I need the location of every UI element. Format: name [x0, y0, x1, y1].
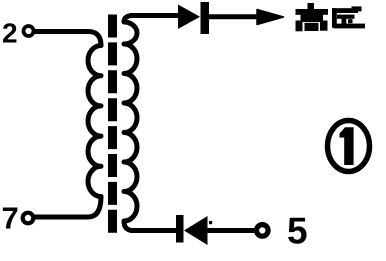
secondary winding of transformer T1: [124, 16, 137, 231]
terminal pin 5: [257, 225, 269, 237]
wire D1 cathode to output arrow: [208, 14, 259, 19]
wire pin2 to primary top: [33, 32, 101, 46]
svg-text:2: 2: [2, 18, 18, 49]
wire D2 anode to pin 5: [207, 228, 255, 233]
wire secondary bottom to diode D2 cathode: [131, 228, 178, 233]
primary winding of transformer T1: [88, 46, 101, 197]
wire secondary top to diode D1 anode: [131, 13, 180, 18]
svg-text:7: 7: [2, 201, 19, 236]
arrow head: high-voltage output: [257, 10, 284, 25]
diode D2 (to pin 5): [176, 215, 208, 245]
wire primary bottom to pin7: [34, 197, 101, 218]
print speckle near D2: [209, 221, 212, 224]
figure number 1 (circled): [328, 121, 370, 172]
terminal pin 7: [23, 213, 34, 224]
terminal pin 2: [24, 26, 34, 36]
net label 压 (voltage): [332, 6, 365, 28]
diode D1 (rectifier to high voltage): [178, 2, 209, 34]
svg-text:5: 5: [287, 211, 308, 252]
transformer core (dashed): [108, 15, 117, 234]
net label 高 (high): [296, 3, 329, 31]
